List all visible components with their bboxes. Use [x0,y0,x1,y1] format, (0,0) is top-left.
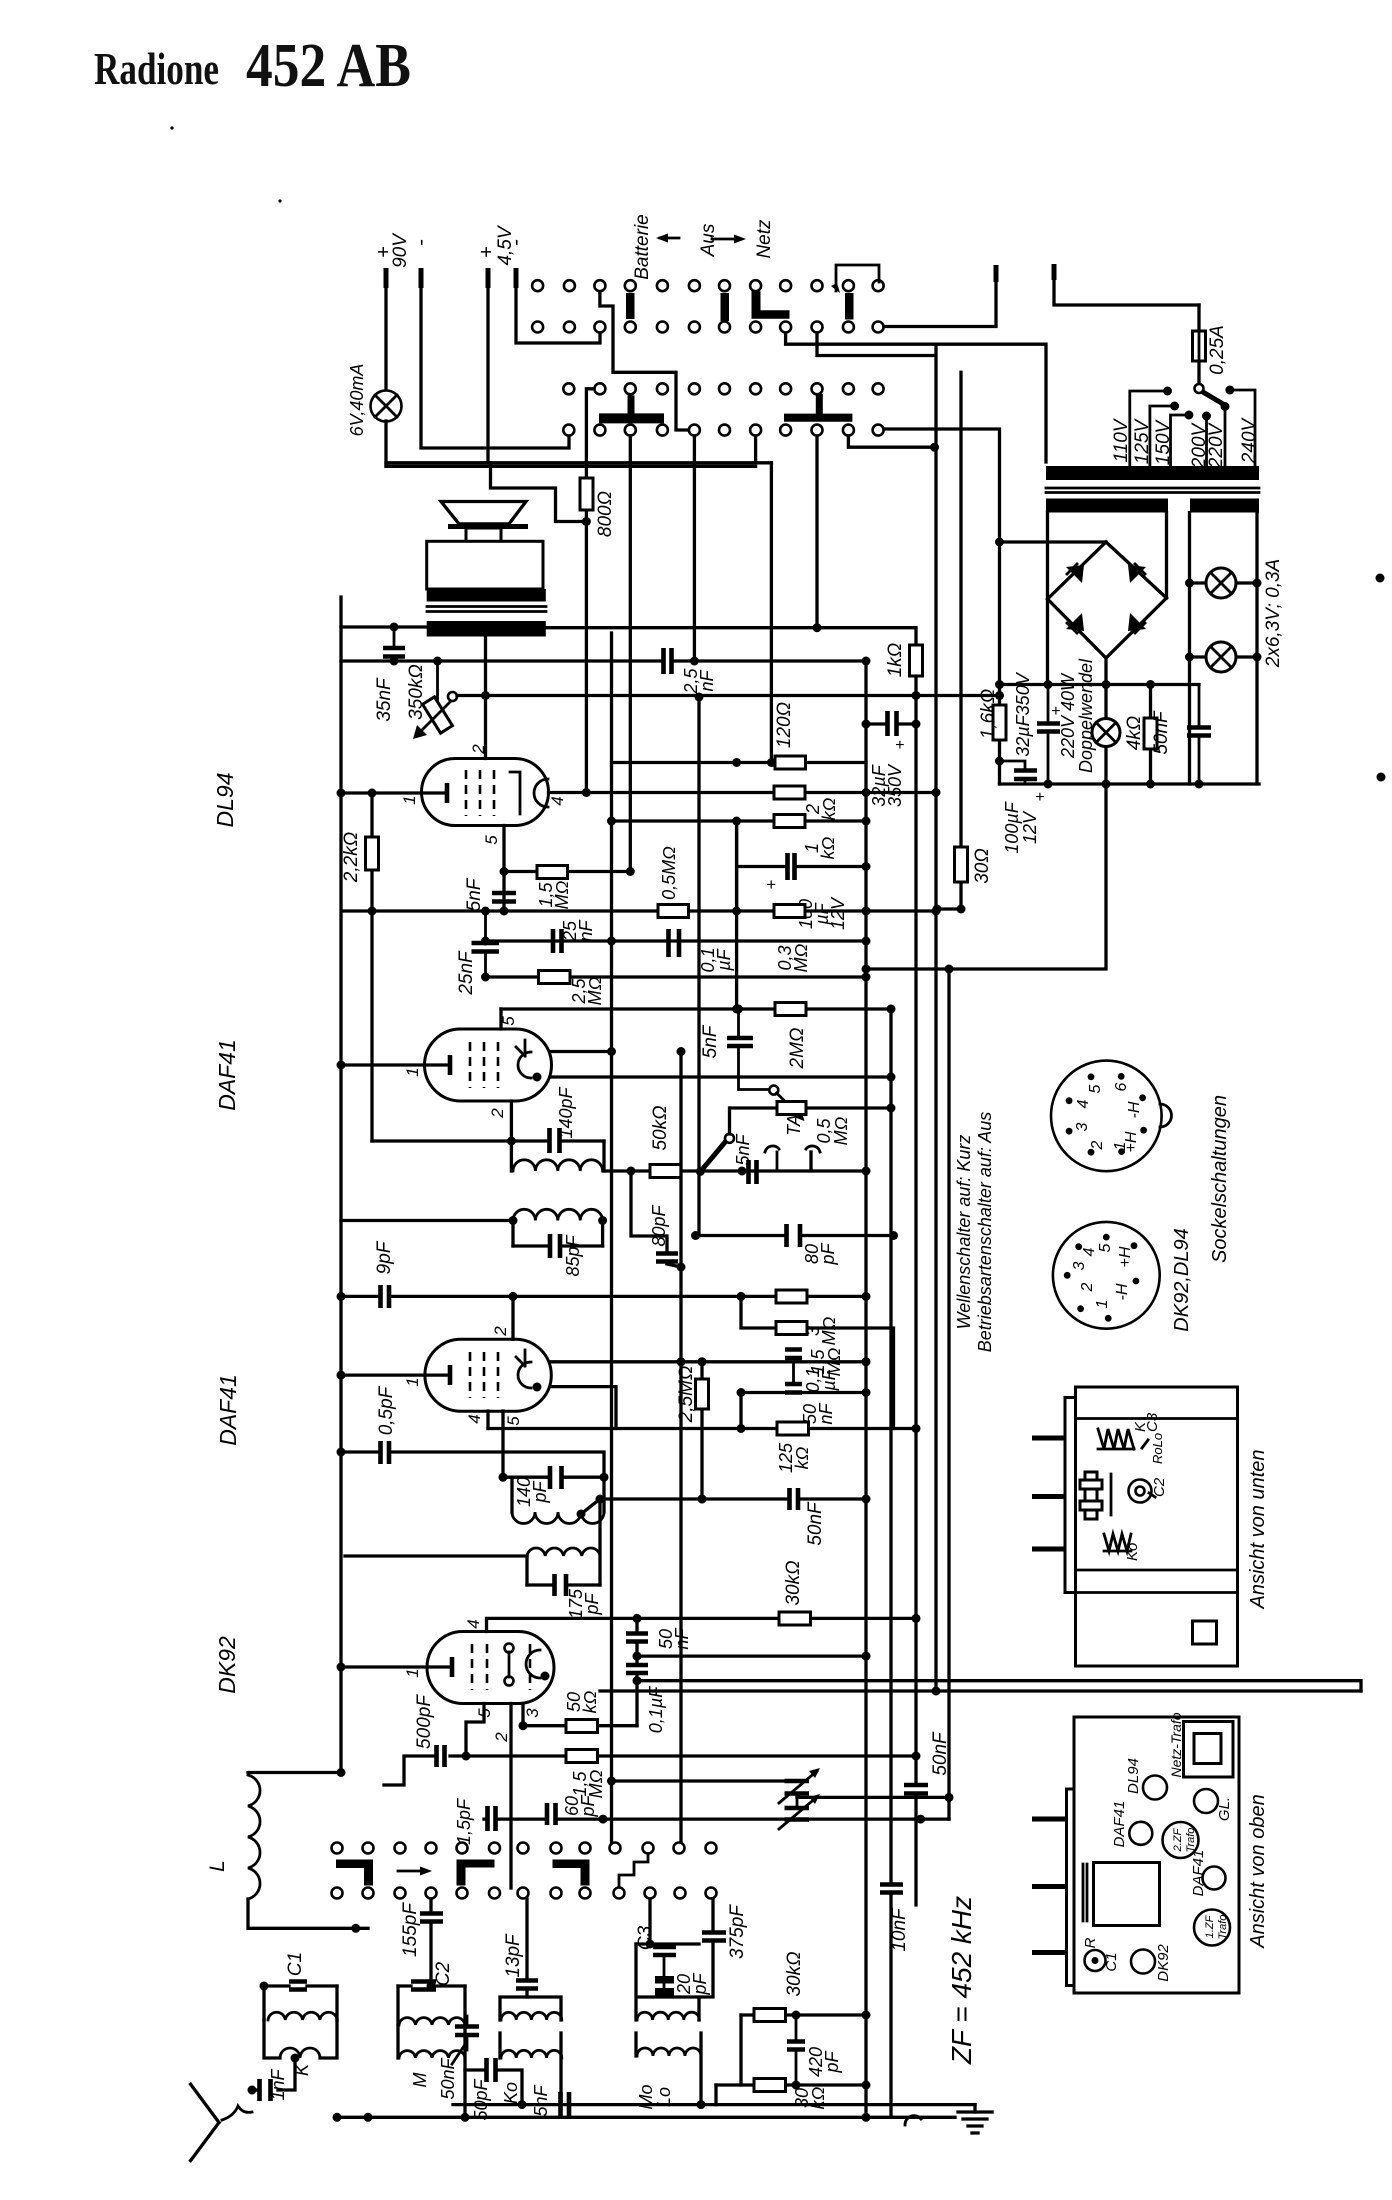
svg-text:1: 1 [403,1067,422,1076]
svg-text:+: + [1035,789,1044,806]
resistor 1,5M [504,870,630,873]
svg-text:2: 2 [492,1732,511,1743]
svg-text:Ansicht von unten: Ansicht von unten [1247,1450,1269,1610]
svg-text:C2: C2 [1151,1477,1168,1497]
svg-text:1: 1 [400,795,419,804]
svg-text:DAF41: DAF41 [1190,1850,1207,1897]
svg-text:6V,40mA: 6V,40mA [347,364,367,437]
speaker cone [441,502,526,524]
bias bus [343,909,936,912]
antenna coil L [248,1771,341,1774]
coil K C3 hatch [1098,1429,1134,1449]
circle 1 ZF Trafo [1194,1910,1230,1946]
svg-text:500pF: 500pF [414,1694,435,1749]
pin2 riser [511,1296,514,1339]
box pins [1032,1438,1065,1549]
resistor 800 ohm [580,478,593,510]
resistor 30k if [741,2013,866,2016]
svg-text:5nF: 5nF [464,877,485,911]
coil M1 [398,1986,465,2025]
svg-text:Ko: Ko [1124,1543,1141,1561]
svg-text:pF: pF [818,1242,838,1265]
svg-text:Doppelwendel: Doppelwendel [1076,658,1096,773]
DL94 anode [510,772,520,814]
svg-text:6: 6 [1113,1082,1130,1091]
svg-text:4: 4 [1081,1247,1098,1256]
resistor row 2k [774,786,805,799]
small square [1193,1621,1217,1644]
svg-text:2,2kΩ: 2,2kΩ [341,832,362,883]
socket view large circle DK92 DL94 [1053,1222,1160,1329]
tap 200V [1202,412,1211,421]
svg-text:nF: nF [816,1402,836,1424]
svg-text:13pF: 13pF [503,1933,524,1978]
coil Lo1 [636,1944,699,2020]
left column wire [735,821,738,1009]
speck [1377,773,1386,782]
svg-text:50kΩ: 50kΩ [650,1105,671,1150]
resistor 1k output [910,645,923,676]
bus 891 [889,1009,892,2117]
elco component [1085,1472,1097,1519]
pin5 lead [501,1411,504,1477]
svg-text:5nF: 5nF [700,1024,721,1058]
svg-text:32µF350V: 32µF350V [1013,671,1033,756]
anode bracket [526,1650,540,1678]
wiper wire [457,694,1000,697]
capacitor 32uF 350V decoupling [866,722,916,725]
tap 110V [1163,387,1172,396]
TA switch contact [769,1086,778,1095]
svg-text:pF: pF [690,1972,710,1995]
pin1 lead [341,1063,448,1066]
svg-text:ZF = 452 kHz: ZF = 452 kHz [946,1896,977,2065]
bus col4 down [629,436,632,872]
svg-text:350V: 350V [885,763,905,807]
switch bank upper row 1 contacts [532,280,884,291]
resistor 0,5M [658,905,689,918]
IF1 primary coil [345,1554,527,1557]
trimmer dial RoLo C2 [1129,1480,1152,1503]
svg-text:-H: -H [1114,1283,1131,1300]
oscillator grid circles [505,1644,514,1653]
socket pin labels DAF41 [1074,1082,1143,1152]
svg-text:50nF: 50nF [438,2057,458,2099]
resistor 1,5M row [741,1296,894,1428]
switch wiper T-bar 1 [599,395,664,423]
pickup contacts [765,1146,820,1152]
pin2 lead to IF secondary [510,1101,513,1141]
IF2 secondary coil [511,1141,604,1171]
mains transformer secondary winding 2 [1190,499,1259,513]
capacitor 50pF [465,2070,522,2105]
capacitor 0,1uF [785,1350,802,1359]
return wire [600,1689,1361,1692]
tube circle DAF41 second top [1203,1867,1226,1890]
coil L return [248,1899,368,1928]
grid bus [341,659,866,662]
capacitor 80pF left [631,1171,667,1252]
svg-text:12V: 12V [828,896,848,930]
capacitor 32uF 350V [1047,685,1050,785]
capacitor 5nF in ground bus [561,2092,570,2116]
svg-text:5nF: 5nF [531,2084,551,2116]
wave switch row B contacts [332,1888,717,1899]
svg-text:4: 4 [464,1619,483,1628]
if bus c [679,1052,682,1843]
svg-text:4kΩ: 4kΩ [1124,716,1145,751]
svg-text:1: 1 [403,1668,422,1677]
tube circle DAF41 top [1129,1822,1152,1845]
svg-text:MΩ: MΩ [586,1769,606,1798]
switch bank lower row 3 contacts [563,383,883,394]
coil M2 [398,2025,465,2117]
trimmer C1 [264,1984,337,1987]
coil Ko hatch [1104,1534,1131,1551]
resistor 2,5M osc grid [700,1362,703,1499]
mains transformer primary winding [1046,466,1259,480]
anode hook [516,1350,525,1366]
diode wire [552,1075,892,1078]
capacitor 500pF [384,1756,466,1785]
switch bank lower row 4 contacts [563,425,883,436]
bridge diode 1 [1066,565,1084,583]
svg-text:4: 4 [1075,1099,1092,1108]
resistor row 0,3M [774,905,805,918]
capacitor 420pF [739,2015,742,2085]
coil K1 [264,1986,337,2020]
pot wiper arrow [777,1093,801,1116]
wiper arrow [398,1870,424,1873]
svg-text:100µF: 100µF [1002,801,1022,853]
vc return [797,1796,949,1799]
battery +90V terminal [384,268,389,288]
svg-text:1: 1 [1112,1142,1129,1151]
svg-text:DL94: DL94 [1125,1758,1142,1794]
bridge diode 4 [1128,613,1146,631]
open terminal circle with wire to rectifier feed [885,429,1000,542]
coil K2 [280,2048,320,2058]
grids dashed [470,1352,498,1398]
svg-text:452 AB: 452 AB [246,32,411,100]
svg-text:kΩ: kΩ [580,1690,600,1713]
svg-text:5: 5 [504,1416,523,1426]
capacitor 50nF [785,1384,802,1393]
tube DL94 [422,759,549,826]
heater rail [1000,683,1200,686]
speck [170,126,173,129]
svg-text:nF: nF [576,919,596,941]
svg-text:pF: pF [582,1592,602,1615]
switch wiper bar col7 [721,293,730,321]
arrow to Batterie [660,237,679,240]
switch wiper bar Batterie [626,293,635,319]
output transformer core lines [427,607,546,612]
svg-text:2: 2 [1079,1282,1096,1292]
svg-text:800Ω: 800Ω [595,491,616,537]
svg-text:MΩ: MΩ [819,1316,839,1345]
mains transformer core [1046,488,1259,493]
capacitor 5nF [492,893,516,902]
svg-text:90V: 90V [390,232,411,268]
tube DK92 [427,1632,554,1704]
svg-text:1,5pF: 1,5pF [454,1798,474,1845]
grids dashed [472,1644,530,1690]
svg-text:30Ω: 30Ω [972,848,993,884]
capacitor 10nF [880,1885,903,1893]
speck [1376,574,1385,583]
svg-text:50nF: 50nF [805,1501,826,1546]
svg-text:DAF41: DAF41 [1111,1801,1128,1848]
tap 220V [1224,407,1227,467]
pin4 anode wire with 30k [487,1618,917,1631]
svg-text:155pF: 155pF [400,1902,421,1957]
svg-text:0,5pF: 0,5pF [376,1385,397,1435]
coil Lo2 [636,2033,701,2105]
mains terminal stub [1052,264,1057,280]
svg-text:25nF: 25nF [456,950,477,996]
grid wire with 50k [604,1169,866,1172]
svg-text:Ansicht von oben: Ansicht von oben [1247,1794,1269,1948]
coupling wire [486,939,867,942]
coil Ko2 [500,2033,561,2105]
svg-text:DK92: DK92 [214,1636,240,1694]
capacitor 5nF pickup [749,1160,757,1184]
circle 2 ZF Trafo [1163,1822,1199,1858]
speck [278,199,281,202]
TA switch lever [703,1141,726,1169]
left grid bus vertical [339,597,342,1773]
chassis bus 1 [453,2103,975,2106]
trimmer C3 [648,1899,651,1944]
antenna symbol [191,2084,219,2160]
DL94 pin1 lead [341,791,445,794]
svg-text:350kΩ: 350kΩ [406,664,427,720]
socket pin labels DK92 [1071,1243,1134,1308]
svg-text:1: 1 [1094,1300,1111,1309]
svg-text:MΩ: MΩ [552,880,572,909]
bus 949 [947,969,950,1819]
capacitor 155pF [429,1899,432,1986]
bus col10 down [815,436,818,628]
top supply bus 1 [386,461,771,464]
diode anode [518,1052,531,1078]
tap 150V [1184,411,1193,420]
svg-text:-: - [410,239,432,246]
bridge diode 3 [1066,613,1084,631]
svg-text:MΩ: MΩ [791,943,811,972]
svg-text:C1: C1 [285,1952,306,1976]
grid resistor 1,5M [466,1754,916,1757]
svg-text:80pF: 80pF [649,1204,669,1246]
svg-text:pF: pF [530,1480,550,1503]
Netz-Trafo squares [1184,1722,1234,1778]
voltage selector lever [1195,384,1204,393]
svg-text:+: + [895,737,904,754]
battery -90V terminal [419,268,424,288]
svg-text:140pF: 140pF [556,1086,576,1138]
wiper bar 2 [457,1860,495,1886]
resistor 30 ohm [937,372,961,909]
capacitor 25nF series [553,929,562,953]
chassis hook [905,2116,921,2125]
svg-text:Ko: Ko [501,2082,521,2104]
svg-text:4: 4 [548,796,567,805]
tube DAF41 audio [425,1029,552,1101]
winding box edges [1048,513,1167,685]
agc wire with 80pF [696,1234,894,1237]
bridge rectifier [1048,542,1167,658]
trimmer R C1 [1085,1950,1106,1971]
svg-text:C3: C3 [635,1925,656,1950]
svg-text:µF: µF [819,1368,839,1391]
bus 936 [934,344,937,1691]
svg-text:pF: pF [578,1794,598,1817]
svg-text:0,25A: 0,25A [1207,325,1228,375]
capacitor 375pF [699,1899,713,1997]
svg-text:DK92,DL94: DK92,DL94 [1171,1228,1193,1331]
staircase wire to output resistor [491,463,587,522]
svg-text:-: - [505,239,527,246]
switch wiper arrow mark [831,283,840,293]
svg-text:5: 5 [482,835,501,845]
potentiometer 350k [436,661,439,700]
wire dc return to bus [866,784,1106,969]
svg-text:2: 2 [491,1326,510,1337]
IF1 primary capacitor 175pF [527,1583,600,1586]
capacitor 50nF cathode [904,1785,928,1794]
grid return wire [486,975,867,978]
speaker magnet [466,528,501,561]
svg-text:10nF: 10nF [889,1907,910,1952]
svg-text:50pF: 50pF [471,2078,491,2120]
svg-text:C3: C3 [1144,1412,1161,1432]
svg-text:3: 3 [1074,1122,1091,1131]
pickup return [809,1152,812,1171]
wire secondary right to output resistor 1k [546,628,916,645]
svg-text:110V: 110V [1111,417,1132,462]
junction dot [582,517,591,526]
svg-text:9pF: 9pF [374,1240,395,1274]
pcb box bottom view [1076,1387,1238,1666]
svg-text:GL.: GL. [1216,1797,1233,1821]
svg-text:+H: +H [1117,1246,1134,1267]
battery +4,5V terminal [486,268,491,288]
switch wiper L-bar Netz [752,291,790,319]
svg-text:2x6,3V; 0,3A: 2x6,3V; 0,3A [1263,559,1284,668]
DL94 notch [534,779,548,807]
capacitor 50nF mixer [466,2016,469,2050]
capacitor 50nF anode [635,1618,638,1725]
anode hook [516,1040,525,1056]
pin4 lead [486,1411,489,1429]
svg-text:pF: pF [822,2050,842,2073]
wiper bar 3 [553,1860,590,1886]
svg-text:220V: 220V [1206,421,1227,469]
dial lamp 2 [1190,655,1258,658]
pin1 lead [341,1373,448,1376]
svg-text:-H: -H [1126,1101,1143,1118]
fuse 0,25A [1197,305,1200,384]
svg-text:5: 5 [1087,1084,1104,1093]
tube DAF41 IF [425,1339,551,1411]
output transformer frame [427,541,543,589]
mains transformer secondary winding 1 [1046,499,1168,513]
switch bank upper row 2 contacts [532,322,884,333]
svg-text:1kΩ: 1kΩ [885,643,906,678]
svg-text:2: 2 [1089,1140,1106,1150]
svg-text:nF: nF [697,669,717,691]
trimmer 20pF solid [655,1976,674,1984]
svg-text:2.ZF: 2.ZF [1172,1827,1184,1852]
screen wire with 125k [488,1393,916,1429]
svg-text:375pF: 375pF [727,1904,748,1959]
bus 918 [914,676,917,1905]
dc minus bus [1000,782,1260,785]
speaker coil bar [448,524,528,529]
svg-text:M: M [410,2073,430,2088]
capacitor 50nF heater [1198,685,1201,785]
svg-text:Radione: Radione [94,44,219,94]
switch wiper bar col11 [845,293,854,320]
ht bus 866 [864,661,867,2117]
cathode wire [741,1391,866,1394]
screen bus [501,1007,891,1010]
svg-text:MΩ: MΩ [831,1116,851,1145]
svg-text:0,5MΩ: 0,5MΩ [659,846,679,900]
svg-text:125V: 125V [1132,417,1153,464]
pilot lamp 6V 40mA [371,391,402,422]
staircase wire row1 col3 down to lower bank [600,292,688,431]
tap 125V [1170,402,1179,411]
screen drop [697,697,700,1236]
svg-text:L: L [206,1860,229,1872]
wire secondary left to grid bus [341,625,427,628]
pin3 wire with 50k [523,1704,637,1726]
svg-text:kΩ: kΩ [818,836,838,859]
svg-text:R: R [1082,1937,1099,1948]
capacitor 100uF 12V [1000,761,1026,784]
agc bus with 9pF and 3M [341,1295,866,1298]
wire row2 col10 jog to bus [817,333,935,356]
svg-text:2MΩ: 2MΩ [787,1028,808,1070]
pin1 lead [341,1665,450,1668]
svg-text:2: 2 [488,1108,507,1119]
screen grid wire long [637,1681,1361,1691]
wire lamp to bus [384,421,387,466]
dial lamp 1 [1190,581,1258,584]
pin5 riser [499,1009,502,1029]
wiper zigzag [619,1854,648,1886]
wire row2 col9 to transformer primary [786,333,1046,462]
svg-text:30kΩ: 30kΩ [783,1560,804,1605]
svg-text:1.ZF: 1.ZF [1204,1914,1216,1938]
coil Ko1 [500,1997,561,2020]
battery -4,5V terminal [514,268,519,288]
anode wire [551,1360,866,1363]
svg-text:µF: µF [714,948,734,971]
screen feed resistor row 120 ohm [612,761,867,764]
svg-text:85pF: 85pF [563,1234,583,1276]
svg-text:50nF: 50nF [1151,710,1172,755]
pin5 lead staircase [466,1704,484,1757]
socket pins DK92 [1064,1234,1140,1322]
if bus b [610,633,613,1842]
svg-text:2,5MΩ: 2,5MΩ [676,1366,697,1424]
wire rectifier feed [1000,540,1107,543]
anode wire [552,1050,612,1053]
svg-text:35nF: 35nF [374,677,395,722]
